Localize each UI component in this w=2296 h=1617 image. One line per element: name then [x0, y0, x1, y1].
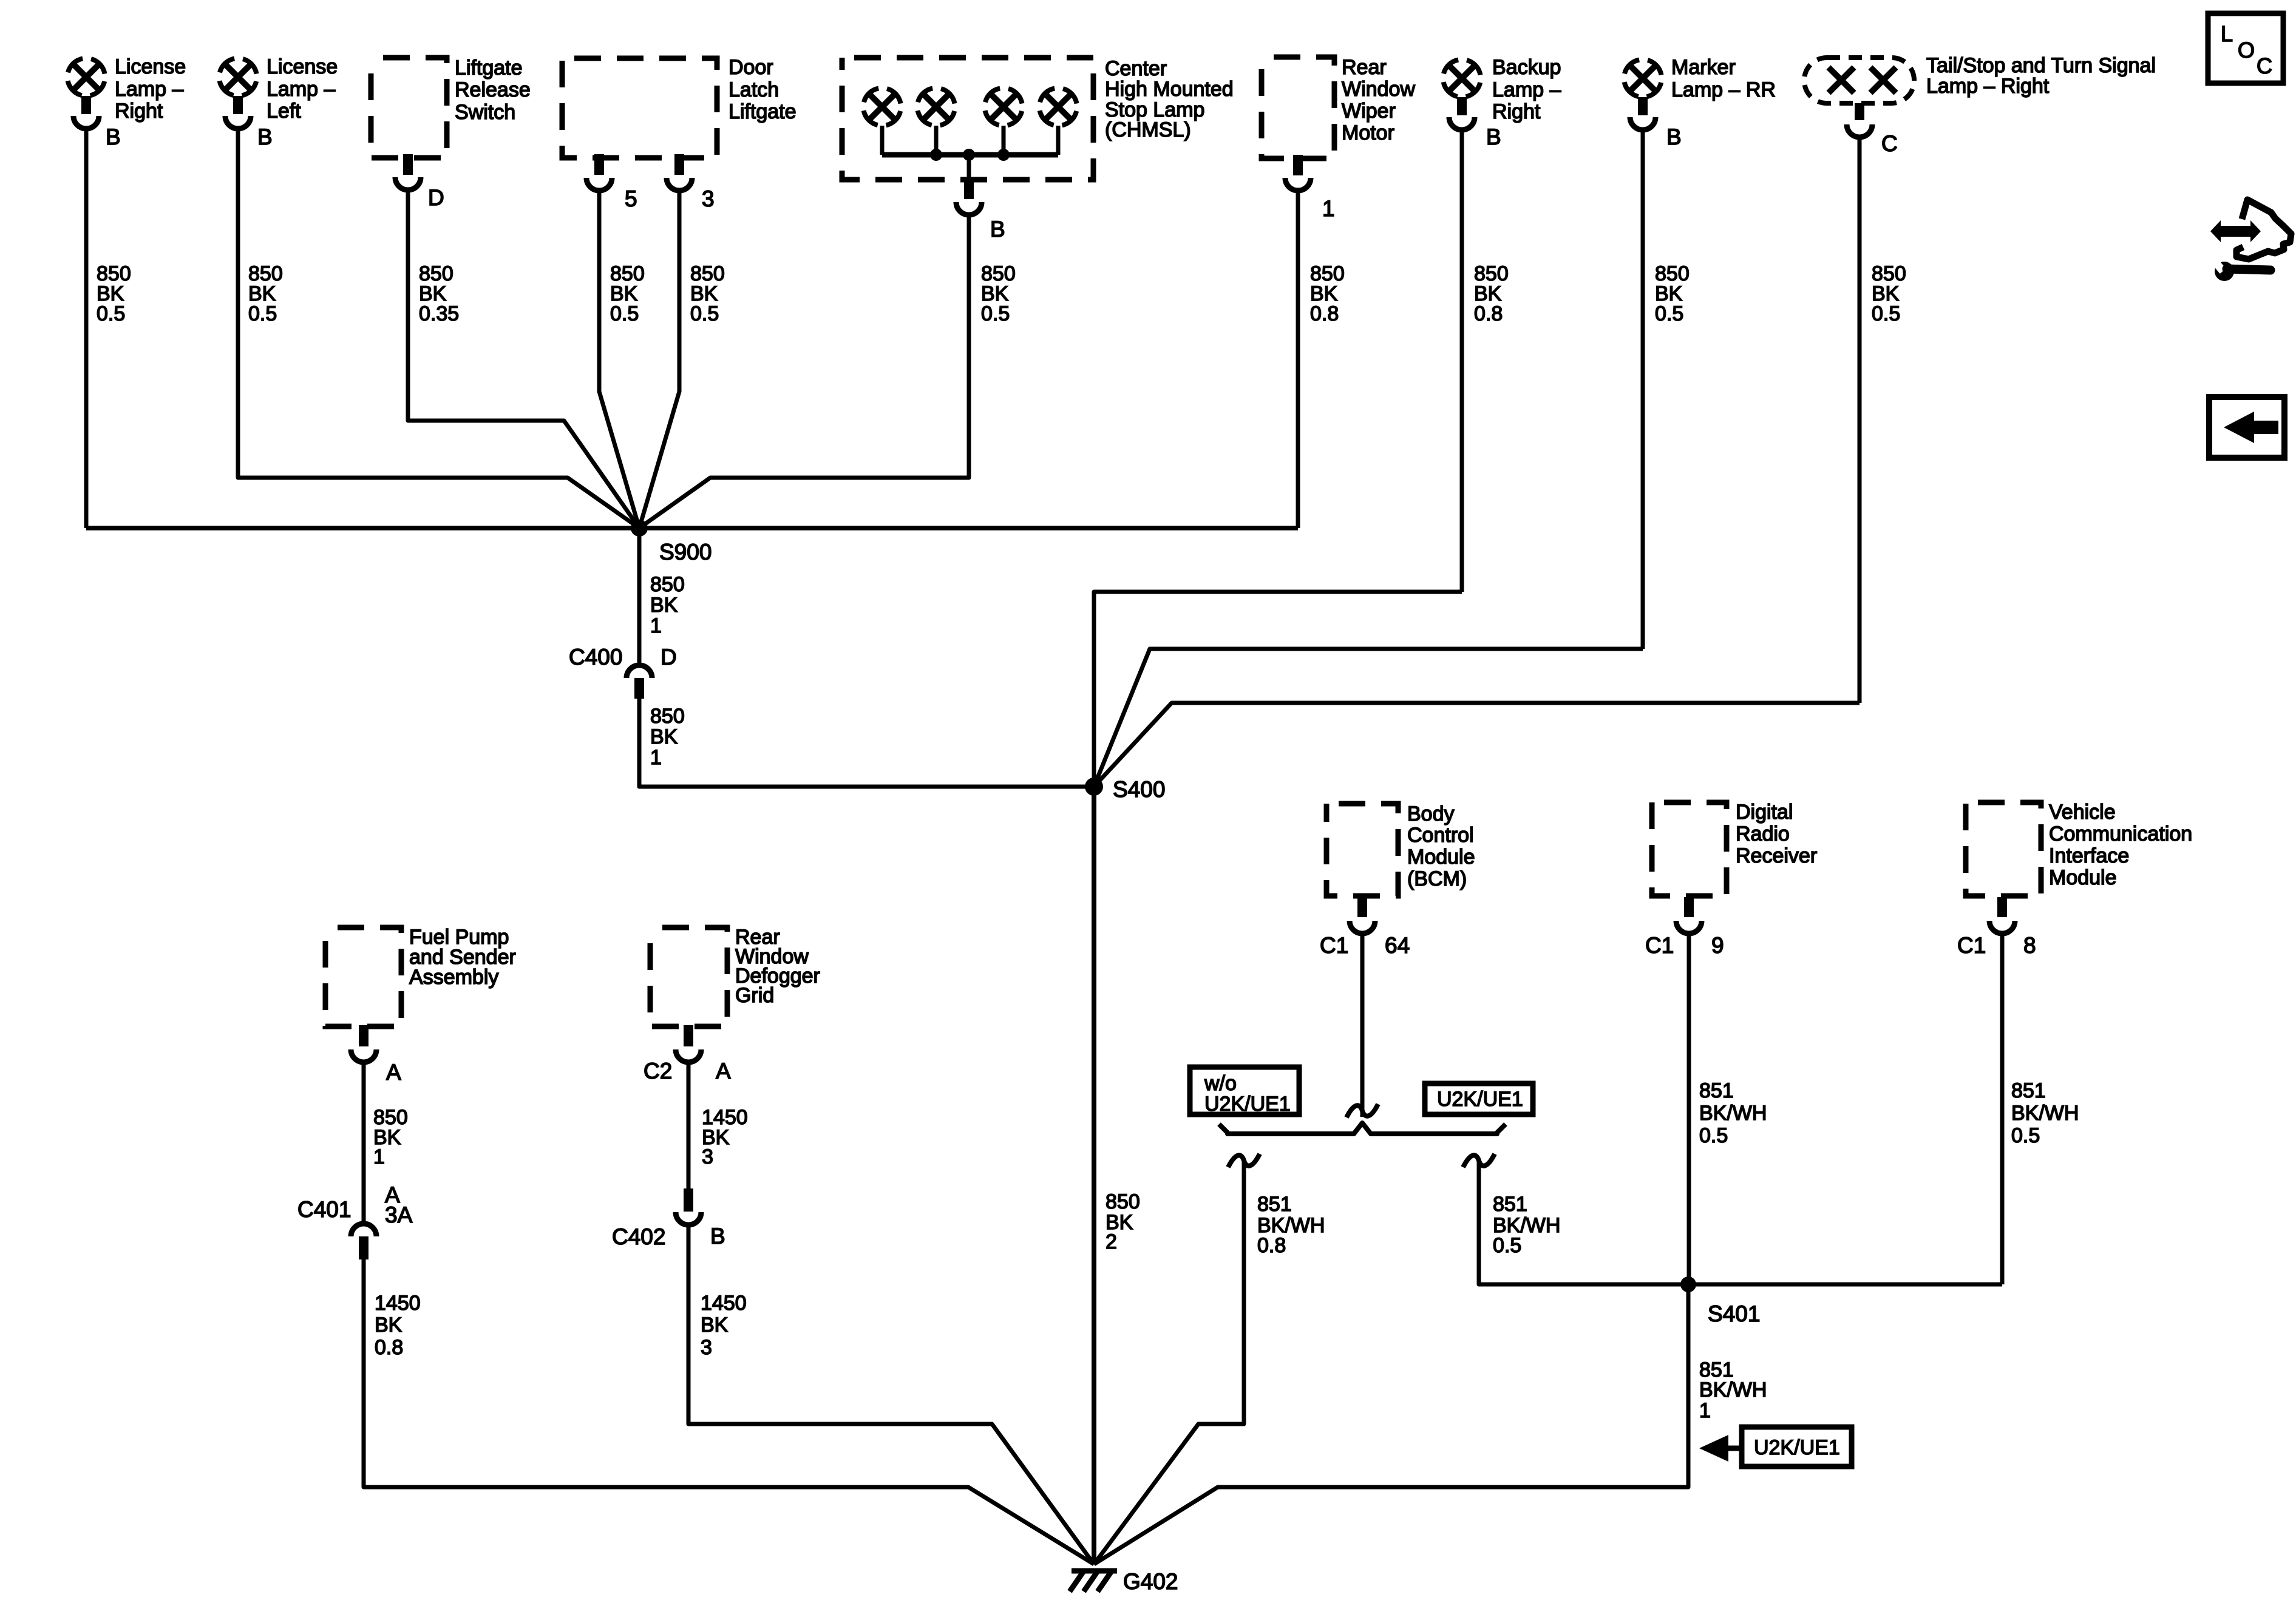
- svg-text:Lamp – RR: Lamp – RR: [1671, 78, 1776, 101]
- svg-text:C1: C1: [1320, 933, 1348, 958]
- CHMSL lamp at 1542: [917, 88, 955, 126]
- svg-text:Module: Module: [2049, 866, 2117, 889]
- left option branch squiggle: [1228, 1154, 1260, 1167]
- svg-text:Wiper: Wiper: [1342, 100, 1396, 123]
- svg-text:Radio: Radio: [1736, 822, 1790, 846]
- svg-text:0.8: 0.8: [1310, 302, 1339, 325]
- box: Body Control Module (BCM): [1326, 804, 1398, 896]
- svg-text:Switch: Switch: [455, 101, 515, 124]
- svg-text:851: 851: [2011, 1079, 2046, 1102]
- splice S400: [1085, 778, 1103, 796]
- svg-text:w/o: w/o: [1204, 1072, 1237, 1095]
- svg-text:S400: S400: [1113, 777, 1165, 802]
- svg-text:0.5: 0.5: [248, 302, 277, 325]
- LOC icon box: [2208, 13, 2283, 83]
- option split bracket: [1219, 1123, 1506, 1134]
- splice S900: [631, 520, 648, 537]
- svg-text:S401: S401: [1708, 1301, 1760, 1326]
- svg-text:C1: C1: [1645, 933, 1674, 958]
- svg-text:C401: C401: [297, 1197, 351, 1222]
- wire 850 BK 1 S900 to C400: [637, 528, 642, 665]
- svg-text:2: 2: [1106, 1230, 1117, 1253]
- splice S401: [1680, 1276, 1696, 1292]
- svg-text:Rear: Rear: [1342, 56, 1387, 79]
- lamp: License Lamp Left: [219, 58, 257, 96]
- svg-text:Lamp – Right: Lamp – Right: [1926, 75, 2050, 98]
- svg-text:Latch: Latch: [729, 78, 779, 101]
- wire 1450 BK 3 to G402: [688, 1226, 1094, 1564]
- svg-text:Digital: Digital: [1736, 801, 1793, 824]
- svg-text:850: 850: [1106, 1190, 1140, 1213]
- svg-text:3: 3: [701, 1336, 712, 1359]
- wire 851 BK/WH 0.5 to S401: [1479, 1162, 2002, 1284]
- svg-text:0.8: 0.8: [375, 1336, 403, 1359]
- svg-text:851: 851: [1257, 1193, 1292, 1216]
- wire 850 BK 0.5 Door pin3: [639, 192, 679, 528]
- lamp pair: Tail/Stop and Turn Signal Lamp Right: [1804, 58, 1914, 103]
- wire 850 BK 1 fuel pump: [362, 1063, 366, 1223]
- svg-text:1: 1: [1322, 196, 1335, 221]
- wire 850 BK 0.5 Door pin5: [599, 192, 639, 528]
- svg-text:Control: Control: [1407, 824, 1474, 847]
- wire 1450 BK 3 defogger: [687, 1063, 691, 1190]
- svg-text:BK: BK: [650, 725, 678, 748]
- svg-text:BK: BK: [650, 594, 678, 617]
- svg-text:License: License: [115, 55, 186, 78]
- U2K/UE1 arrow callout: [1742, 1427, 1852, 1466]
- svg-text:O: O: [2238, 38, 2255, 63]
- svg-text:Tail/Stop and Turn Signal: Tail/Stop and Turn Signal: [1926, 54, 2156, 77]
- svg-text:C: C: [1881, 131, 1898, 156]
- wire 850 BK 0.5 Marker: [1641, 131, 1645, 649]
- svg-text:0.5: 0.5: [690, 302, 719, 325]
- svg-text:3: 3: [702, 186, 715, 211]
- connector C401: [351, 1224, 376, 1236]
- svg-text:850: 850: [650, 705, 685, 728]
- wire S400 to Marker lamp: [1094, 649, 1643, 787]
- wire from BCM to option split: [1360, 935, 1365, 1117]
- svg-text:0.5: 0.5: [1699, 1124, 1728, 1147]
- svg-text:3: 3: [702, 1145, 713, 1168]
- svg-text:U2K/UE1: U2K/UE1: [1754, 1436, 1840, 1459]
- svg-text:Center: Center: [1105, 57, 1167, 80]
- svg-text:G402: G402: [1123, 1569, 1178, 1594]
- svg-text:BK: BK: [701, 1314, 729, 1337]
- svg-text:U2K/UE1: U2K/UE1: [1437, 1088, 1523, 1111]
- CHMSL lamp at 1453: [863, 88, 901, 126]
- box: Digital Radio Receiver: [1652, 802, 1727, 896]
- svg-text:BK: BK: [375, 1314, 402, 1337]
- box: Rear Window Defogger Grid: [650, 927, 727, 1026]
- svg-text:Receiver: Receiver: [1736, 844, 1817, 867]
- svg-text:U2K/UE1: U2K/UE1: [1204, 1093, 1291, 1116]
- svg-text:Window: Window: [1342, 78, 1415, 101]
- svg-text:B: B: [1666, 124, 1682, 149]
- svg-text:1450: 1450: [701, 1292, 747, 1315]
- svg-text:C402: C402: [612, 1224, 665, 1249]
- svg-text:1: 1: [650, 614, 662, 637]
- back arrow icon box: [2209, 397, 2284, 458]
- svg-text:1450: 1450: [375, 1292, 421, 1315]
- box: Liftgate Release Switch: [371, 58, 447, 158]
- svg-text:A: A: [716, 1059, 731, 1083]
- svg-text:0.5: 0.5: [2011, 1124, 2040, 1147]
- svg-text:Right: Right: [115, 100, 163, 123]
- lamp: Marker Lamp RR: [1624, 59, 1662, 97]
- svg-text:License: License: [267, 55, 338, 78]
- svg-text:0.5: 0.5: [1872, 302, 1900, 325]
- svg-text:3A: 3A: [385, 1202, 413, 1227]
- svg-text:850: 850: [650, 573, 685, 596]
- svg-text:B: B: [106, 124, 121, 149]
- svg-text:Lamp –: Lamp –: [267, 78, 335, 101]
- svg-text:C1: C1: [1957, 933, 1986, 958]
- box: Fuel Pump and Sender Assembly: [325, 927, 401, 1026]
- svg-text:851: 851: [1699, 1079, 1734, 1102]
- svg-text:0.35: 0.35: [419, 302, 459, 325]
- option label box w/o U2K/UE1: [1190, 1067, 1299, 1114]
- svg-text:Door: Door: [729, 56, 773, 79]
- lamp: Backup Lamp Right: [1443, 59, 1481, 97]
- svg-text:Marker: Marker: [1671, 56, 1736, 79]
- option label box U2K/UE1: [1425, 1083, 1533, 1114]
- svg-text:Vehicle: Vehicle: [2049, 801, 2116, 824]
- CHMSL lamp at 1743: [1039, 88, 1077, 126]
- svg-text:1: 1: [373, 1145, 385, 1168]
- wire 1450 BK 0.8 to G402: [364, 1259, 1094, 1564]
- svg-text:B: B: [1486, 124, 1501, 149]
- svg-text:(BCM): (BCM): [1407, 867, 1467, 890]
- connector C400: [627, 665, 652, 678]
- svg-text:Module: Module: [1407, 846, 1475, 869]
- svg-text:L: L: [2221, 21, 2233, 46]
- wire 850 BK 0.8 Backup: [1460, 131, 1464, 592]
- box: Rear Window Wiper Motor: [1262, 57, 1334, 158]
- svg-text:Interface: Interface: [2049, 844, 2129, 867]
- svg-text:851: 851: [1493, 1193, 1527, 1216]
- svg-text:BK/WH: BK/WH: [2011, 1102, 2079, 1125]
- wire 850 BK 0.5 License Right: [84, 130, 89, 528]
- svg-text:0.5: 0.5: [1655, 302, 1683, 325]
- svg-text:C2: C2: [644, 1059, 672, 1083]
- svg-text:Lamp –: Lamp –: [115, 78, 183, 101]
- svg-text:0.5: 0.5: [97, 302, 125, 325]
- CHMSL lamp at 1653: [985, 88, 1022, 126]
- CHMSL internal bus: [882, 152, 1058, 158]
- wire 851 BK/WH 0.5 radio to S401: [1687, 935, 1691, 1284]
- svg-text:1: 1: [650, 746, 662, 769]
- svg-text:BK/WH: BK/WH: [1699, 1102, 1767, 1125]
- wire 850 BK 0.5 Tail: [1858, 138, 1862, 703]
- svg-text:0.5: 0.5: [1493, 1234, 1521, 1257]
- svg-text:Liftgate: Liftgate: [455, 56, 523, 80]
- electrical repair icon (arrow + wrench): [2210, 220, 2261, 242]
- wire 850 BK 0.5 CHMSL: [639, 216, 969, 528]
- svg-text:D: D: [428, 185, 444, 210]
- connector C402: [684, 1188, 693, 1212]
- svg-text:Assembly: Assembly: [409, 966, 498, 989]
- box: Center High Mounted Stop Lamp (CHMSL): [842, 58, 1093, 180]
- svg-text:Right: Right: [1492, 100, 1541, 123]
- svg-text:Body: Body: [1407, 802, 1455, 825]
- svg-text:5: 5: [625, 186, 637, 211]
- svg-text:0.5: 0.5: [981, 302, 1010, 325]
- svg-text:Liftgate: Liftgate: [729, 100, 796, 123]
- svg-text:S900: S900: [659, 540, 712, 564]
- wire S400 to Tail lamp: [1094, 703, 1860, 787]
- svg-text:D: D: [661, 645, 677, 670]
- svg-text:A: A: [386, 1060, 401, 1085]
- wire 850 BK 0.5 License Left: [238, 130, 639, 528]
- wire 850 BK 1 C400 to S400: [639, 699, 1094, 787]
- svg-text:C400: C400: [569, 645, 622, 670]
- wire 850 BK 0.35 Liftgate: [408, 191, 639, 528]
- svg-text:0.8: 0.8: [1474, 302, 1503, 325]
- wire main ground bus to S900: [86, 526, 1298, 531]
- svg-text:Left: Left: [267, 100, 301, 123]
- ground G402: [1072, 1568, 1117, 1574]
- wire 851 BK/WH 1 S401 to G402: [1094, 1284, 1688, 1564]
- box: Vehicle Communication Interface Module: [1966, 802, 2041, 896]
- wire 850 BK 2 S400 to G402: [1092, 787, 1096, 1564]
- svg-text:B: B: [990, 217, 1005, 242]
- svg-text:Lamp –: Lamp –: [1492, 78, 1561, 101]
- svg-text:0.5: 0.5: [610, 302, 639, 325]
- break squiggle on BCM wire: [1347, 1104, 1378, 1117]
- wire 851 BK/WH 0.5 VCIM to S401: [2000, 935, 2005, 1284]
- wire 851 BK/WH 0.8 to G402: [1094, 1162, 1244, 1564]
- box: Door Latch Liftgate: [562, 58, 717, 158]
- wire S400 up to Backup lamp: [1094, 592, 1462, 787]
- svg-text:C: C: [2257, 53, 2272, 78]
- svg-text:Motor: Motor: [1342, 121, 1394, 144]
- wire 850 BK 0.8 Wiper: [1296, 192, 1300, 528]
- svg-text:Release: Release: [455, 78, 531, 101]
- svg-text:Communication: Communication: [2049, 822, 2192, 846]
- svg-text:BK/WH: BK/WH: [1699, 1378, 1767, 1402]
- svg-text:Backup: Backup: [1492, 56, 1561, 79]
- svg-text:64: 64: [1385, 933, 1410, 958]
- svg-text:B: B: [710, 1224, 725, 1249]
- right option branch squiggle: [1463, 1154, 1495, 1167]
- svg-text:(CHMSL): (CHMSL): [1105, 118, 1191, 141]
- svg-text:Grid: Grid: [735, 984, 774, 1007]
- svg-text:8: 8: [2023, 933, 2036, 958]
- svg-text:0.8: 0.8: [1257, 1234, 1286, 1257]
- svg-text:B: B: [257, 124, 273, 149]
- svg-text:High Mounted: High Mounted: [1105, 78, 1234, 101]
- lamp: License Lamp Right: [67, 58, 105, 96]
- svg-text:1: 1: [1699, 1399, 1711, 1422]
- svg-text:9: 9: [1711, 933, 1724, 958]
